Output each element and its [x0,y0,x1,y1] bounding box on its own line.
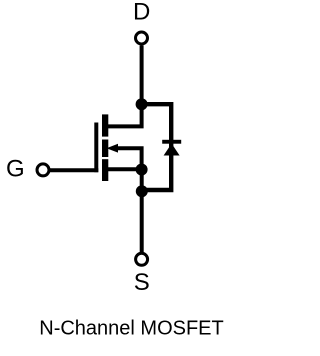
transistor Q1 source wire: bottom channel bar to junction 1 [105,167,142,171]
diode D1 cathode bar [162,140,181,144]
terminal circle D [136,32,148,44]
transistor Q1 bottom channel bar (source contact) [102,159,108,181]
wire: junction 2 down to S terminal [140,191,144,252]
transistor Q1 gate bar [94,123,98,173]
transistor Q1 body arrow (points left, N-channel) [107,144,119,153]
node drain junction dot [136,98,148,110]
wire: D terminal to drain junction [140,45,144,104]
wire: junction 1 down to junction 2 [140,170,144,192]
svg-text:G: G [6,156,25,183]
transistor Q1 drain wire: top channel bar to drain junction [105,104,142,126]
terminal circle S [136,253,148,265]
wire: G terminal to gate bar [50,168,98,172]
wire: drain junction right, down diode branch, to source junction 2 [142,104,172,190]
svg-text:N-Channel MOSFET: N-Channel MOSFET [39,317,224,339]
terminal circle G [37,164,49,176]
transistor Q1 top channel bar (drain contact) [102,114,108,136]
node source junction 1 (body tie) [136,164,148,176]
diode D1 triangle (anode, pointing up) [164,144,180,156]
transistor Q1 body wire: arrow base to junction 1 [113,148,142,169]
node source junction 2 dot [136,185,148,197]
svg-text:S: S [134,269,150,296]
svg-text:D: D [133,0,150,25]
transistor Q1 middle channel bar (body contact) [102,140,108,158]
